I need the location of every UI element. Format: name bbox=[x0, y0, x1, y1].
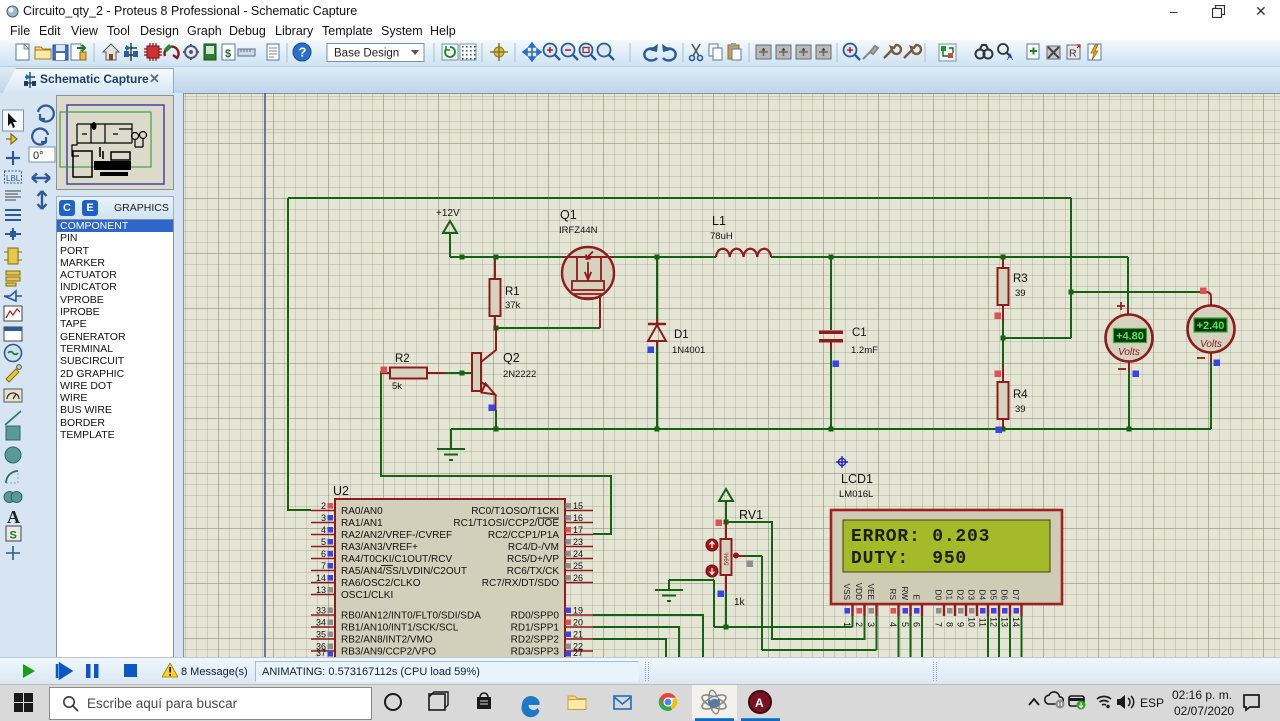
svg-text:RB2/AN8/INT2/VMO: RB2/AN8/INT2/VMO bbox=[341, 635, 433, 646]
svg-text:RC0/T1OSO/T1CKI: RC0/T1OSO/T1CKI bbox=[471, 506, 559, 517]
svg-text:+4.80: +4.80 bbox=[1116, 331, 1144, 343]
svg-text:25: 25 bbox=[573, 561, 583, 571]
pin marker R4 bottom bbox=[996, 427, 1003, 434]
svg-text:78uH: 78uH bbox=[710, 231, 733, 242]
pin marker VM2 plus bbox=[1200, 288, 1207, 295]
svg-text:RD1/SPP1: RD1/SPP1 bbox=[511, 623, 560, 634]
wire LCD D4-D7 drops bbox=[988, 616, 1022, 657]
wire RV1 bottom drop bbox=[725, 592, 727, 627]
svg-text:11: 11 bbox=[978, 618, 988, 627]
voltmeter VM2 +2.40 bbox=[1188, 292, 1235, 362]
U2 right pin stubs bbox=[565, 511, 593, 652]
wire voltmeter1 plus drop bbox=[1127, 257, 1129, 306]
svg-text:13: 13 bbox=[316, 585, 326, 595]
svg-text:D5: D5 bbox=[989, 590, 998, 601]
svg-text:U2: U2 bbox=[333, 484, 349, 498]
C E GRAPHICS header bbox=[56, 196, 174, 221]
wire ground1 stub bbox=[450, 429, 452, 448]
svg-text:RC2/CCP1/P1A: RC2/CCP1/P1A bbox=[488, 530, 559, 541]
svg-text:7: 7 bbox=[321, 561, 326, 571]
svg-text:ERROR: 0.203: ERROR: 0.203 bbox=[851, 527, 990, 547]
svg-text:RD3/SPP3: RD3/SPP3 bbox=[511, 647, 560, 658]
wire LCD RS RW E drops bbox=[899, 616, 923, 657]
svg-text:13: 13 bbox=[1000, 617, 1010, 627]
svg-text:RW: RW bbox=[900, 587, 909, 601]
wire C1 branch bbox=[830, 257, 832, 429]
svg-text:LBL: LBL bbox=[6, 174, 21, 183]
junction R3-R4 node bbox=[1001, 336, 1006, 341]
svg-text:39: 39 bbox=[1015, 288, 1026, 299]
potentiometer RV1 bbox=[706, 508, 763, 608]
svg-text:17: 17 bbox=[573, 525, 583, 535]
U2 left pin stubs bbox=[311, 511, 335, 652]
svg-text:RA1/AN1: RA1/AN1 bbox=[341, 518, 383, 529]
wire pin21 RD2 bbox=[593, 639, 666, 657]
pin marker D1 bbox=[648, 347, 655, 354]
svg-text:35: 35 bbox=[316, 630, 326, 640]
wire RV1 top to VDD bbox=[726, 500, 865, 639]
wire main rail segment B bbox=[613, 256, 716, 258]
svg-text:21: 21 bbox=[573, 630, 583, 640]
overview window bbox=[56, 95, 174, 190]
svg-text:6: 6 bbox=[321, 549, 326, 559]
svg-text:RD2/SPP2: RD2/SPP2 bbox=[511, 635, 560, 646]
svg-text:9: 9 bbox=[956, 622, 966, 627]
svg-text:12: 12 bbox=[989, 617, 999, 627]
svg-text:RC4/D-/VM: RC4/D-/VM bbox=[508, 542, 559, 553]
svg-text:3: 3 bbox=[321, 513, 326, 523]
object list bbox=[56, 219, 174, 659]
svg-text:RA2/AN2/VREF-/CVREF: RA2/AN2/VREF-/CVREF bbox=[341, 530, 452, 541]
svg-text:A: A bbox=[7, 507, 20, 527]
svg-text:1N4001: 1N4001 bbox=[672, 345, 705, 356]
svg-text:15: 15 bbox=[573, 501, 583, 511]
junction D1 top bbox=[655, 255, 660, 260]
svg-text:DUTY: 950: DUTY: 950 bbox=[851, 549, 967, 569]
pin marker R3 bottom bbox=[995, 313, 1002, 320]
wire Q2 base link bbox=[445, 372, 472, 374]
junction R1 top bbox=[494, 255, 499, 260]
svg-text:33: 33 bbox=[316, 606, 326, 616]
svg-text:RB3/AN9/CCP2/VPO: RB3/AN9/CCP2/VPO bbox=[341, 647, 436, 658]
svg-text:2N2222: 2N2222 bbox=[503, 369, 536, 380]
pin marker VM2 minus bbox=[1214, 360, 1221, 367]
svg-text:RC6/TX/CK: RC6/TX/CK bbox=[507, 566, 560, 577]
svg-text:27: 27 bbox=[573, 648, 583, 657]
wire VSS net bbox=[669, 580, 853, 627]
pin marker RV1 wiper bbox=[747, 561, 754, 568]
svg-text:5k: 5k bbox=[392, 381, 402, 392]
wire Q2 emitter drop bbox=[495, 410, 497, 429]
svg-text:Volts: Volts bbox=[1118, 347, 1140, 358]
svg-text:RA3/AN3/VREF+: RA3/AN3/VREF+ bbox=[341, 542, 418, 553]
junction R4 bottom bbox=[1001, 427, 1006, 432]
junction Q2 emitter rail bbox=[494, 427, 499, 432]
ground GND1 bbox=[437, 449, 465, 460]
svg-text:Volts: Volts bbox=[1200, 339, 1222, 350]
svg-text:A: A bbox=[755, 696, 764, 710]
svg-text:1k: 1k bbox=[734, 597, 746, 608]
svg-text:RA6/OSC2/CLKO: RA6/OSC2/CLKO bbox=[341, 578, 421, 589]
svg-text:2: 2 bbox=[321, 501, 326, 511]
svg-text:RA5/AN4/SS/LVDIN/C2OUT: RA5/AN4/SS/LVDIN/C2OUT bbox=[341, 566, 467, 577]
svg-text:RB1/AN10/INT1/SCK/SCL: RB1/AN10/INT1/SCK/SCL bbox=[341, 623, 459, 634]
junction R3 top bbox=[1001, 255, 1006, 260]
wire left feedback drop bbox=[288, 198, 311, 510]
pin marker RV1 bottom bbox=[718, 591, 725, 598]
wire voltmeter2 minus drop bbox=[1210, 362, 1212, 429]
svg-text:26: 26 bbox=[573, 573, 583, 583]
power terminal +5V above RV1 bbox=[719, 489, 733, 501]
svg-text:4: 4 bbox=[888, 622, 898, 627]
svg-text:LM016L: LM016L bbox=[839, 489, 873, 500]
junction +12V rail bbox=[460, 255, 465, 260]
svg-text:R2: R2 bbox=[395, 353, 410, 365]
svg-text:59%: 59% bbox=[724, 552, 731, 565]
svg-text:C1: C1 bbox=[852, 327, 867, 339]
svg-text:S: S bbox=[10, 530, 17, 542]
transistor Q1 mosfet IRFZ44N bbox=[559, 208, 614, 328]
pin marker C1 bbox=[833, 361, 840, 368]
junction C1 bottom bbox=[829, 427, 834, 432]
voltmeter VM1 +4.80 bbox=[1106, 302, 1153, 371]
wire bottom rail bbox=[451, 428, 1211, 430]
resistor R1 bbox=[490, 259, 521, 328]
svg-text:23: 23 bbox=[573, 537, 583, 547]
wire pin19 RD0 bbox=[593, 615, 703, 657]
wire R1 to gate bbox=[496, 327, 600, 329]
sheet border bbox=[264, 93, 266, 657]
svg-text:3: 3 bbox=[866, 622, 876, 627]
svg-text:?: ? bbox=[299, 45, 307, 60]
svg-text:D0: D0 bbox=[934, 590, 943, 601]
svg-text:1: 1 bbox=[842, 622, 852, 627]
svg-text:$: $ bbox=[225, 48, 231, 60]
wire VEE net bbox=[745, 556, 877, 650]
svg-text:RS: RS bbox=[888, 589, 897, 601]
pin marker R2 left bbox=[381, 367, 388, 374]
junction VM1 bottom rail bbox=[1127, 427, 1132, 432]
svg-text:R1: R1 bbox=[505, 286, 520, 298]
svg-text:D3: D3 bbox=[967, 590, 976, 601]
svg-text:LCD1: LCD1 bbox=[841, 472, 873, 486]
U2 right pin numbers and markers bbox=[566, 501, 584, 658]
LCD LCD1 LM016L body bbox=[831, 472, 1062, 604]
svg-text:RD0/SPP0: RD0/SPP0 bbox=[511, 611, 560, 622]
svg-text:Base Design: Base Design bbox=[334, 48, 399, 60]
svg-text:D1: D1 bbox=[945, 590, 954, 601]
power terminal +12V bbox=[436, 208, 460, 233]
pin marker RV1 top bbox=[716, 520, 723, 527]
svg-text:E: E bbox=[912, 595, 921, 601]
junction R1 bottom gate node bbox=[494, 326, 499, 331]
svg-text:R4: R4 bbox=[1013, 389, 1028, 401]
svg-text:OSC1/CLKI: OSC1/CLKI bbox=[341, 590, 393, 601]
transistor Q2 2N2222 bbox=[472, 328, 536, 410]
svg-text:RC7/RX/DT/SDO: RC7/RX/DT/SDO bbox=[482, 578, 559, 589]
svg-text:D4: D4 bbox=[978, 590, 987, 601]
resistor R3 bbox=[998, 259, 1028, 338]
svg-text:34: 34 bbox=[316, 618, 326, 628]
svg-text:39: 39 bbox=[1015, 404, 1026, 415]
wire top rail bbox=[288, 197, 1071, 199]
resistor R2 bbox=[381, 353, 445, 392]
svg-text:+2.40: +2.40 bbox=[1197, 320, 1225, 332]
svg-text:24: 24 bbox=[573, 549, 583, 559]
svg-text:14: 14 bbox=[316, 573, 326, 583]
junction C1 top bbox=[829, 255, 834, 260]
svg-text:RA0/AN0: RA0/AN0 bbox=[341, 506, 383, 517]
LCD pin stubs bbox=[853, 604, 1022, 616]
wire voltmeter2 branch bbox=[1071, 291, 1201, 293]
svg-text:0°: 0° bbox=[33, 150, 44, 162]
svg-text:4: 4 bbox=[321, 525, 326, 535]
svg-text:L1: L1 bbox=[712, 214, 726, 228]
svg-text:RA4/T0CKI/C1OUT/RCV: RA4/T0CKI/C1OUT/RCV bbox=[341, 554, 452, 565]
ground GND2 bbox=[655, 580, 683, 601]
svg-text:1.2mF: 1.2mF bbox=[851, 345, 878, 356]
svg-text:A: A bbox=[1007, 52, 1013, 62]
U2 pin name labels bbox=[341, 506, 559, 658]
svg-text:D6: D6 bbox=[1000, 590, 1009, 601]
svg-text:IRFZ44N: IRFZ44N bbox=[559, 225, 598, 236]
pin marker R4 top bbox=[995, 371, 1002, 378]
svg-text:7: 7 bbox=[934, 622, 944, 627]
inductor L1 bbox=[710, 214, 771, 257]
svg-text:RC1/T1OSI/CCP2/UOE: RC1/T1OSI/CCP2/UOE bbox=[453, 518, 559, 529]
PIC microcontroller U2 bbox=[333, 484, 565, 659]
junction Q2 base bbox=[460, 371, 465, 376]
wire main rail segment C bbox=[771, 256, 1128, 258]
wire D1 branch bbox=[656, 257, 658, 429]
svg-text:D1: D1 bbox=[674, 329, 689, 341]
svg-text:10: 10 bbox=[967, 617, 977, 627]
svg-text:D7: D7 bbox=[1011, 590, 1020, 601]
junction VM2 branch bbox=[1069, 290, 1074, 295]
svg-text:16: 16 bbox=[573, 513, 583, 523]
svg-text:19: 19 bbox=[573, 606, 583, 616]
svg-text:Q1: Q1 bbox=[560, 208, 577, 222]
capacitor C1 bbox=[819, 327, 878, 356]
U2 left pin numbers and markers bbox=[316, 501, 333, 658]
origin marker near LCD bbox=[836, 456, 848, 468]
U2 overlines for SS and UOE bbox=[381, 518, 559, 566]
junction D1 bottom bbox=[655, 427, 660, 432]
wire voltmeter1 minus drop bbox=[1128, 371, 1130, 429]
svg-text:20: 20 bbox=[573, 618, 583, 628]
svg-text:Q2: Q2 bbox=[503, 351, 520, 365]
wire right outer drop bbox=[1070, 198, 1072, 338]
resistor R4 bbox=[998, 338, 1029, 429]
LCD pin numbers and markers bbox=[842, 608, 1021, 627]
LCD pin names rotated bbox=[842, 583, 1020, 601]
svg-text:6: 6 bbox=[912, 622, 922, 627]
svg-text:RB0/AN12/INT0/FLT0/SDI/SDA: RB0/AN12/INT0/FLT0/SDI/SDA bbox=[341, 611, 481, 622]
svg-text:R: R bbox=[1069, 48, 1077, 60]
pin marker VM1 minus bbox=[1133, 371, 1140, 378]
svg-text:5: 5 bbox=[900, 622, 910, 627]
svg-text:VDD: VDD bbox=[854, 583, 863, 600]
svg-text:VEE: VEE bbox=[866, 584, 875, 601]
svg-text:D2: D2 bbox=[956, 590, 965, 601]
pin marker Q2 emitter bbox=[489, 405, 496, 412]
wire +12V drop bbox=[449, 233, 451, 257]
wire pin20 RD1 bbox=[593, 627, 679, 657]
svg-text:RV1: RV1 bbox=[739, 508, 763, 522]
svg-text:RC5/D+/VP: RC5/D+/VP bbox=[507, 554, 559, 565]
svg-text:+12V: +12V bbox=[436, 208, 460, 219]
diode D1 1N4001 bbox=[648, 319, 705, 356]
svg-text:R3: R3 bbox=[1013, 273, 1028, 285]
svg-text:14: 14 bbox=[1011, 617, 1021, 627]
junction RV1 bottom bbox=[724, 625, 729, 630]
svg-text:8: 8 bbox=[945, 622, 955, 627]
wire R3 R4 feedback link bbox=[1003, 337, 1071, 339]
svg-text:37k: 37k bbox=[505, 300, 521, 311]
svg-text:2: 2 bbox=[854, 622, 864, 627]
wire R2 to pin17 PWM bbox=[381, 371, 611, 534]
junction RV1 top bbox=[724, 520, 729, 525]
wire main rail segment A bbox=[450, 256, 563, 258]
svg-text:37: 37 bbox=[316, 648, 326, 657]
svg-text:5: 5 bbox=[321, 537, 326, 547]
svg-text:VSS: VSS bbox=[842, 584, 851, 601]
